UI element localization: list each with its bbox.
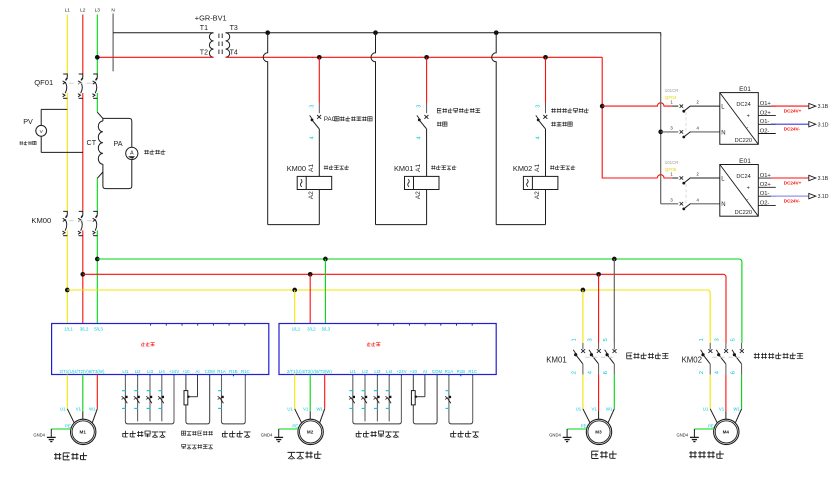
svg-text:KM02: KM02 [682,355,702,364]
svg-text:GND4: GND4 [261,432,273,437]
wires LI1-LI4 with contacts [352,376,354,421]
power supply E01 unit 1 [720,93,759,145]
svg-text:4: 4 [417,136,423,139]
label VFD model (red) [141,342,155,346]
wire branch 2 bottom [376,224,427,226]
svg-text:3: 3 [309,105,315,108]
svg-text:-: - [747,125,749,131]
svg-text:2: 2 [572,371,578,374]
relay contact feeding KM00 coil [317,115,321,119]
svg-text:5/L3: 5/L3 [322,326,331,331]
svg-text:PE: PE [708,423,714,428]
wire yellow distribution bus [67,290,710,343]
node N rail PSU1 tap [658,130,663,135]
wire branch 1 coil lead [318,129,320,177]
label VFD control signals [356,431,399,438]
svg-text:PE: PE [292,423,298,428]
svg-text:6: 6 [603,371,609,374]
node branch 2 on red bus [424,55,429,60]
svg-text:E01: E01 [739,158,751,165]
switch QF04 N contact [661,131,679,133]
svg-text:3.1B: 3.1B [818,104,829,110]
wire branch 1 red drop [318,57,320,103]
label 油泵电机接触器 [754,353,803,359]
wire PSU1 L feed [602,103,672,106]
svg-text:CT: CT [87,138,97,147]
wire T1 output (yellow) [294,375,296,409]
node branch 3 on red bus [543,55,548,60]
arrow 3.1D unit 2 [809,193,816,198]
svg-text:E01: E01 [739,86,751,93]
node branch 3 on L bus [494,30,499,35]
label panel knob line2 [182,444,214,449]
svg-text:T3: T3 [230,25,238,32]
transformer primary winding T1-T2 [209,33,213,58]
switch QF05 link [685,184,687,208]
switch QF04 L contact [673,105,679,107]
svg-text:PV: PV [23,117,33,126]
svg-text:L3: L3 [95,8,101,14]
wire R1C [244,376,246,421]
svg-text:M1: M1 [80,430,87,435]
label branch 2 contact text [437,108,480,113]
svg-text:W1: W1 [89,407,96,412]
contactor KM01 pole 1 [582,343,584,349]
svg-text:KM01: KM01 [546,355,566,364]
ground [278,429,280,437]
motor M3 [586,419,611,444]
svg-text:+GR-BV1: +GR-BV1 [195,14,227,23]
ground [693,429,695,437]
wire R1A with alarm contact [221,376,223,421]
switch QF04 link [685,112,687,136]
node red bus source [95,55,100,60]
svg-text:R1C: R1C [468,369,477,374]
bus R1A to R1C [222,421,246,424]
wire +24V [173,376,175,421]
wire PA loop [103,118,132,147]
label VFD alarm [222,431,251,438]
wire PV top tap [41,108,67,110]
wire AI wiper [424,376,426,396]
svg-text:V1: V1 [592,407,598,412]
label working voltage [19,141,36,145]
node VFD2 L3 tap [323,257,328,262]
svg-text:3: 3 [587,338,593,341]
contactor KM02 link [712,356,740,358]
svg-text:3.1D: 3.1D [818,194,829,200]
breaker QF01 pole 1 [63,74,67,78]
VFD inverter block [279,324,496,375]
svg-text:R1A: R1A [217,369,226,374]
wire DC24V- output unit 2 [771,195,809,197]
contactor KM02 pole 3 [741,343,743,349]
ground [566,429,568,437]
coil KM00 (contactor coil) [297,176,332,189]
wire branch 2 red drop [426,57,428,103]
svg-text:DC24V+: DC24V+ [784,108,802,113]
wire phase L1 (yellow) vertical [66,15,68,75]
label VFD control signals [122,431,165,438]
svg-text:4: 4 [536,136,542,139]
svg-text:KM00: KM00 [287,164,306,173]
motor M1 [71,419,96,444]
contactor KM02 pole 2 [725,343,727,349]
svg-text:T1: T1 [200,25,208,32]
wire PSU2 L feed hop [657,175,672,178]
svg-text:3.1B: 3.1B [818,176,829,182]
breaker QF01 pole 2 [79,74,83,78]
contactor KM00 pole 1 [63,211,67,215]
svg-text:M2: M2 [307,430,314,435]
svg-text:101CR: 101CR [665,88,679,93]
relay contact feeding KM02 coil [543,115,547,119]
potentiometer speed knob [411,391,415,405]
svg-text:A2: A2 [415,191,422,199]
svg-text:1/L1: 1/L1 [64,326,73,331]
wire motor leads [583,409,590,423]
ground [50,429,52,437]
wire green distribution bus [97,259,742,343]
VFD top border terminal ticks [150,324,152,326]
svg-text:A1: A1 [308,164,315,172]
wire PE ground (green) [279,428,299,430]
svg-text:R1A: R1A [445,369,454,374]
wire motor leads [67,409,74,423]
wire DC24V+ output unit 2 [771,177,809,179]
bus potentiometer to COM [413,421,437,424]
wire VFD2 L1 drop [294,290,296,324]
wire T1 output (yellow) [66,375,68,409]
svg-text:V1: V1 [76,407,82,412]
svg-text:A1: A1 [415,164,422,172]
contactor KM01 pole 2 [598,343,600,349]
svg-text:LI2: LI2 [362,369,369,374]
wire branch 3 coil lead [545,129,547,177]
svg-text:2/T1(U)4/T2(V)6/T3(W): 2/T1(U)4/T2(V)6/T3(W) [60,369,105,374]
wire branch 3 red drop [545,57,547,103]
power supply E01 unit 2 [720,165,759,217]
breaker QF01 pole 3 [93,74,97,78]
svg-text:2/T1(U)4/T2(V)6/T3(W): 2/T1(U)4/T2(V)6/T3(W) [287,369,332,374]
arrow 3.1B unit 2 [809,175,816,180]
label VFD model (red) [367,342,381,346]
label motor name [689,451,724,459]
node branch 1 on L bus [265,30,270,35]
svg-text:U1: U1 [576,407,582,412]
bus LI contacts to +24V [353,421,402,424]
svg-text:A1: A1 [534,164,541,172]
svg-text:COM: COM [205,369,216,374]
relay contact feeding KM01 coil [424,115,428,119]
wire 220V live bus (red) [97,56,213,58]
svg-text:U1: U1 [287,407,293,412]
wire branch 3 return leg [492,33,497,225]
svg-text:DC24V+: DC24V+ [784,180,802,185]
wire neutral N vertical [112,14,114,72]
wire PE ground (green) [694,428,714,430]
arrow 3.1D unit 1 [809,122,816,127]
label 主电机接触器 [627,353,669,359]
bus LI contacts to +24V [125,421,174,424]
svg-text:M3: M3 [595,430,602,435]
node green bus tap [95,257,100,262]
svg-text:PE: PE [65,423,71,428]
svg-text:U1: U1 [703,407,709,412]
wire branch 1 bottom [268,224,320,226]
transformer CT coil [98,121,103,164]
svg-text:+24V: +24V [396,369,406,374]
node red bus tap [80,272,85,277]
contactor KM00 pole 3 [93,211,97,215]
bus R1A to R1C [449,421,473,424]
svg-text:R1B: R1B [229,369,238,374]
svg-text:R1C: R1C [241,369,250,374]
svg-text:+24V: +24V [169,369,179,374]
motor M2 [298,419,323,444]
svg-text:COM: COM [432,369,443,374]
svg-text:KM00: KM00 [31,216,51,225]
svg-text:AI: AI [195,369,199,374]
svg-text:1/L1: 1/L1 [292,326,301,331]
svg-text:DC24: DC24 [736,174,750,180]
wire T2 output (green) [309,375,311,412]
svg-text:-: - [747,197,749,203]
wire KM01 pole1 drop [582,290,584,343]
svg-text:L2: L2 [80,8,86,14]
svg-text:LI2: LI2 [135,369,142,374]
wire branch 2 return leg [371,33,376,225]
wire N rail (gray) [660,34,662,204]
svg-text:GND4: GND4 [33,432,45,437]
wire L bus (top black) [113,32,213,34]
transformer core [218,34,220,57]
svg-text:3/L2: 3/L2 [80,326,89,331]
wire branch 2 coil lead [426,129,428,177]
svg-text:L1: L1 [65,8,71,14]
coil KM02 (contactor coil) [523,176,558,189]
svg-text:DC220: DC220 [735,210,752,216]
node KM01 pole2 tap [596,272,601,277]
coil KM01 (contactor coil) [405,176,440,189]
svg-text:W1: W1 [606,407,613,412]
wire +10 to potentiometer [412,376,414,390]
svg-text:LI3: LI3 [147,369,154,374]
label coil text [431,165,456,170]
wire motor leads [295,409,302,423]
label coil text [324,165,349,170]
transformer CT jog top [97,112,103,121]
svg-text:5: 5 [730,338,736,341]
svg-text:U1: U1 [60,407,66,412]
svg-text:V1: V1 [303,407,309,412]
svg-text:DC24V-: DC24V- [784,127,801,132]
svg-text:LI1: LI1 [122,369,129,374]
svg-text:1: 1 [699,338,705,341]
bus potentiometer to COM [186,421,210,424]
wire phase L2 (red) vertical [82,15,84,75]
voltmeter PV [36,125,47,136]
wire DC24V- output unit 1 [771,123,809,125]
svg-text:PE: PE [581,423,587,428]
wire +24V [400,376,402,421]
switch QF05 L contact [673,177,679,179]
contactor KM01 pole 3 [613,343,615,349]
label crossbeam motor [288,451,322,459]
svg-text:N: N [721,130,725,136]
node KM01 pole3 tap [612,257,617,262]
wire branch 3 bottom [496,224,545,226]
wire KM01 outputs [582,375,584,409]
svg-text:M4: M4 [723,430,730,435]
wire VFD2 L2 drop [309,274,311,323]
svg-text:DC220: DC220 [735,138,752,144]
contactor KM01 link [585,356,613,358]
svg-text:AI: AI [423,369,427,374]
svg-text:101CR: 101CR [665,160,679,165]
svg-text:DC24: DC24 [736,102,750,108]
node red rail PSU1 tap [600,104,605,109]
svg-text:2: 2 [699,371,705,374]
svg-text:GND4: GND4 [549,432,561,437]
label panel knob line1 [181,431,213,436]
wire motor leads [710,409,717,423]
svg-text:W1: W1 [316,407,323,412]
wire KM01 pole3 drop (gray) [613,259,615,343]
svg-text:KM01: KM01 [394,164,413,173]
svg-text:5: 5 [603,338,609,341]
label motor name [592,451,617,459]
svg-text:LI4: LI4 [386,369,393,374]
wire COM [209,376,211,421]
wire PE ground (green) [51,428,71,430]
label tool post motor [54,453,87,461]
wire KM01 pole2 drop [598,274,600,343]
potentiometer speed knob [184,391,188,405]
wire T3 output (red) [96,375,98,409]
wire phase L3 (green) vertical [96,15,98,75]
svg-text:T2: T2 [200,50,208,57]
contactor KM00 pole 2 [79,211,83,215]
svg-text:LI1: LI1 [350,369,357,374]
svg-text:3: 3 [715,338,721,341]
wire R1A with alarm contact [448,376,450,421]
node branch 2 on L bus [373,30,378,35]
node VFD2 L1 tap [292,288,297,293]
wires LI1-LI4 with contacts [124,376,126,421]
svg-text:5/L3: 5/L3 [94,326,103,331]
svg-text:V1: V1 [719,407,725,412]
svg-text:LI4: LI4 [159,369,166,374]
svg-text:GND4: GND4 [676,432,688,437]
svg-text:KM02: KM02 [513,164,532,173]
ammeter PA [126,147,138,159]
wire COM [436,376,438,421]
node KM01 pole1 tap [581,288,586,293]
wire branch 1 return leg [263,33,268,225]
wire PE ground (green) [567,428,587,430]
contactor KM02 pole 1 [709,343,711,349]
svg-text:PA: PA [114,139,123,148]
wire potentiometer bottom [412,405,414,422]
node VFD2 L2 tap [308,272,313,277]
svg-text:W1: W1 [733,407,740,412]
breaker QF01 link [69,82,92,84]
svg-text:LI3: LI3 [374,369,381,374]
svg-text:A2: A2 [308,191,315,199]
svg-text:QF01: QF01 [34,78,53,87]
contactor KM00 link [69,220,92,222]
wire T3 output (red) [324,375,326,409]
svg-text:N: N [721,202,725,208]
svg-text:6: 6 [730,371,736,374]
node yellow bus tap [65,288,70,293]
svg-text:4: 4 [309,136,315,139]
wire +10 to potentiometer [185,376,187,390]
switch QF05 N contact [661,203,679,205]
transformer CT jog bottom [97,164,103,178]
svg-text:+10: +10 [410,369,418,374]
svg-text:T4: T4 [230,50,238,57]
svg-text:A: A [130,150,134,156]
label branch 3 contact text [551,108,589,113]
VFD top border terminal ticks [377,324,379,326]
wire PV bottom tap [40,136,42,152]
svg-text:1: 1 [572,338,578,341]
svg-text:N: N [111,8,115,14]
arrow 3.1B unit 1 [809,103,816,108]
svg-text:DC24V-: DC24V- [784,198,801,203]
label VFD alarm [450,431,479,438]
svg-text:3: 3 [417,105,423,108]
svg-text:3/L2: 3/L2 [307,326,316,331]
svg-text:R1B: R1B [457,369,466,374]
label coil text [550,165,575,170]
VFD inverter block [52,324,269,375]
wire potentiometer bottom [185,405,187,422]
svg-text:3: 3 [536,105,542,108]
wire DC24V+ output unit 1 [771,105,809,107]
wire red distribution bus [83,274,726,343]
wire T2 output (green) [82,375,84,412]
node branch 1 on red bus [317,55,322,60]
wire KM02 outputs [709,375,711,409]
label working current [144,150,165,155]
wire AI wiper [197,376,199,396]
motor M4 [714,419,739,444]
svg-text:A2: A2 [534,191,541,199]
wire VFD2 L3 drop [324,259,326,324]
wire R1C [472,376,474,421]
svg-text:3.1D: 3.1D [818,122,829,128]
wire red rail corner [602,57,657,178]
transformer secondary winding T3-T4 [226,33,230,58]
svg-text:+10: +10 [182,369,190,374]
